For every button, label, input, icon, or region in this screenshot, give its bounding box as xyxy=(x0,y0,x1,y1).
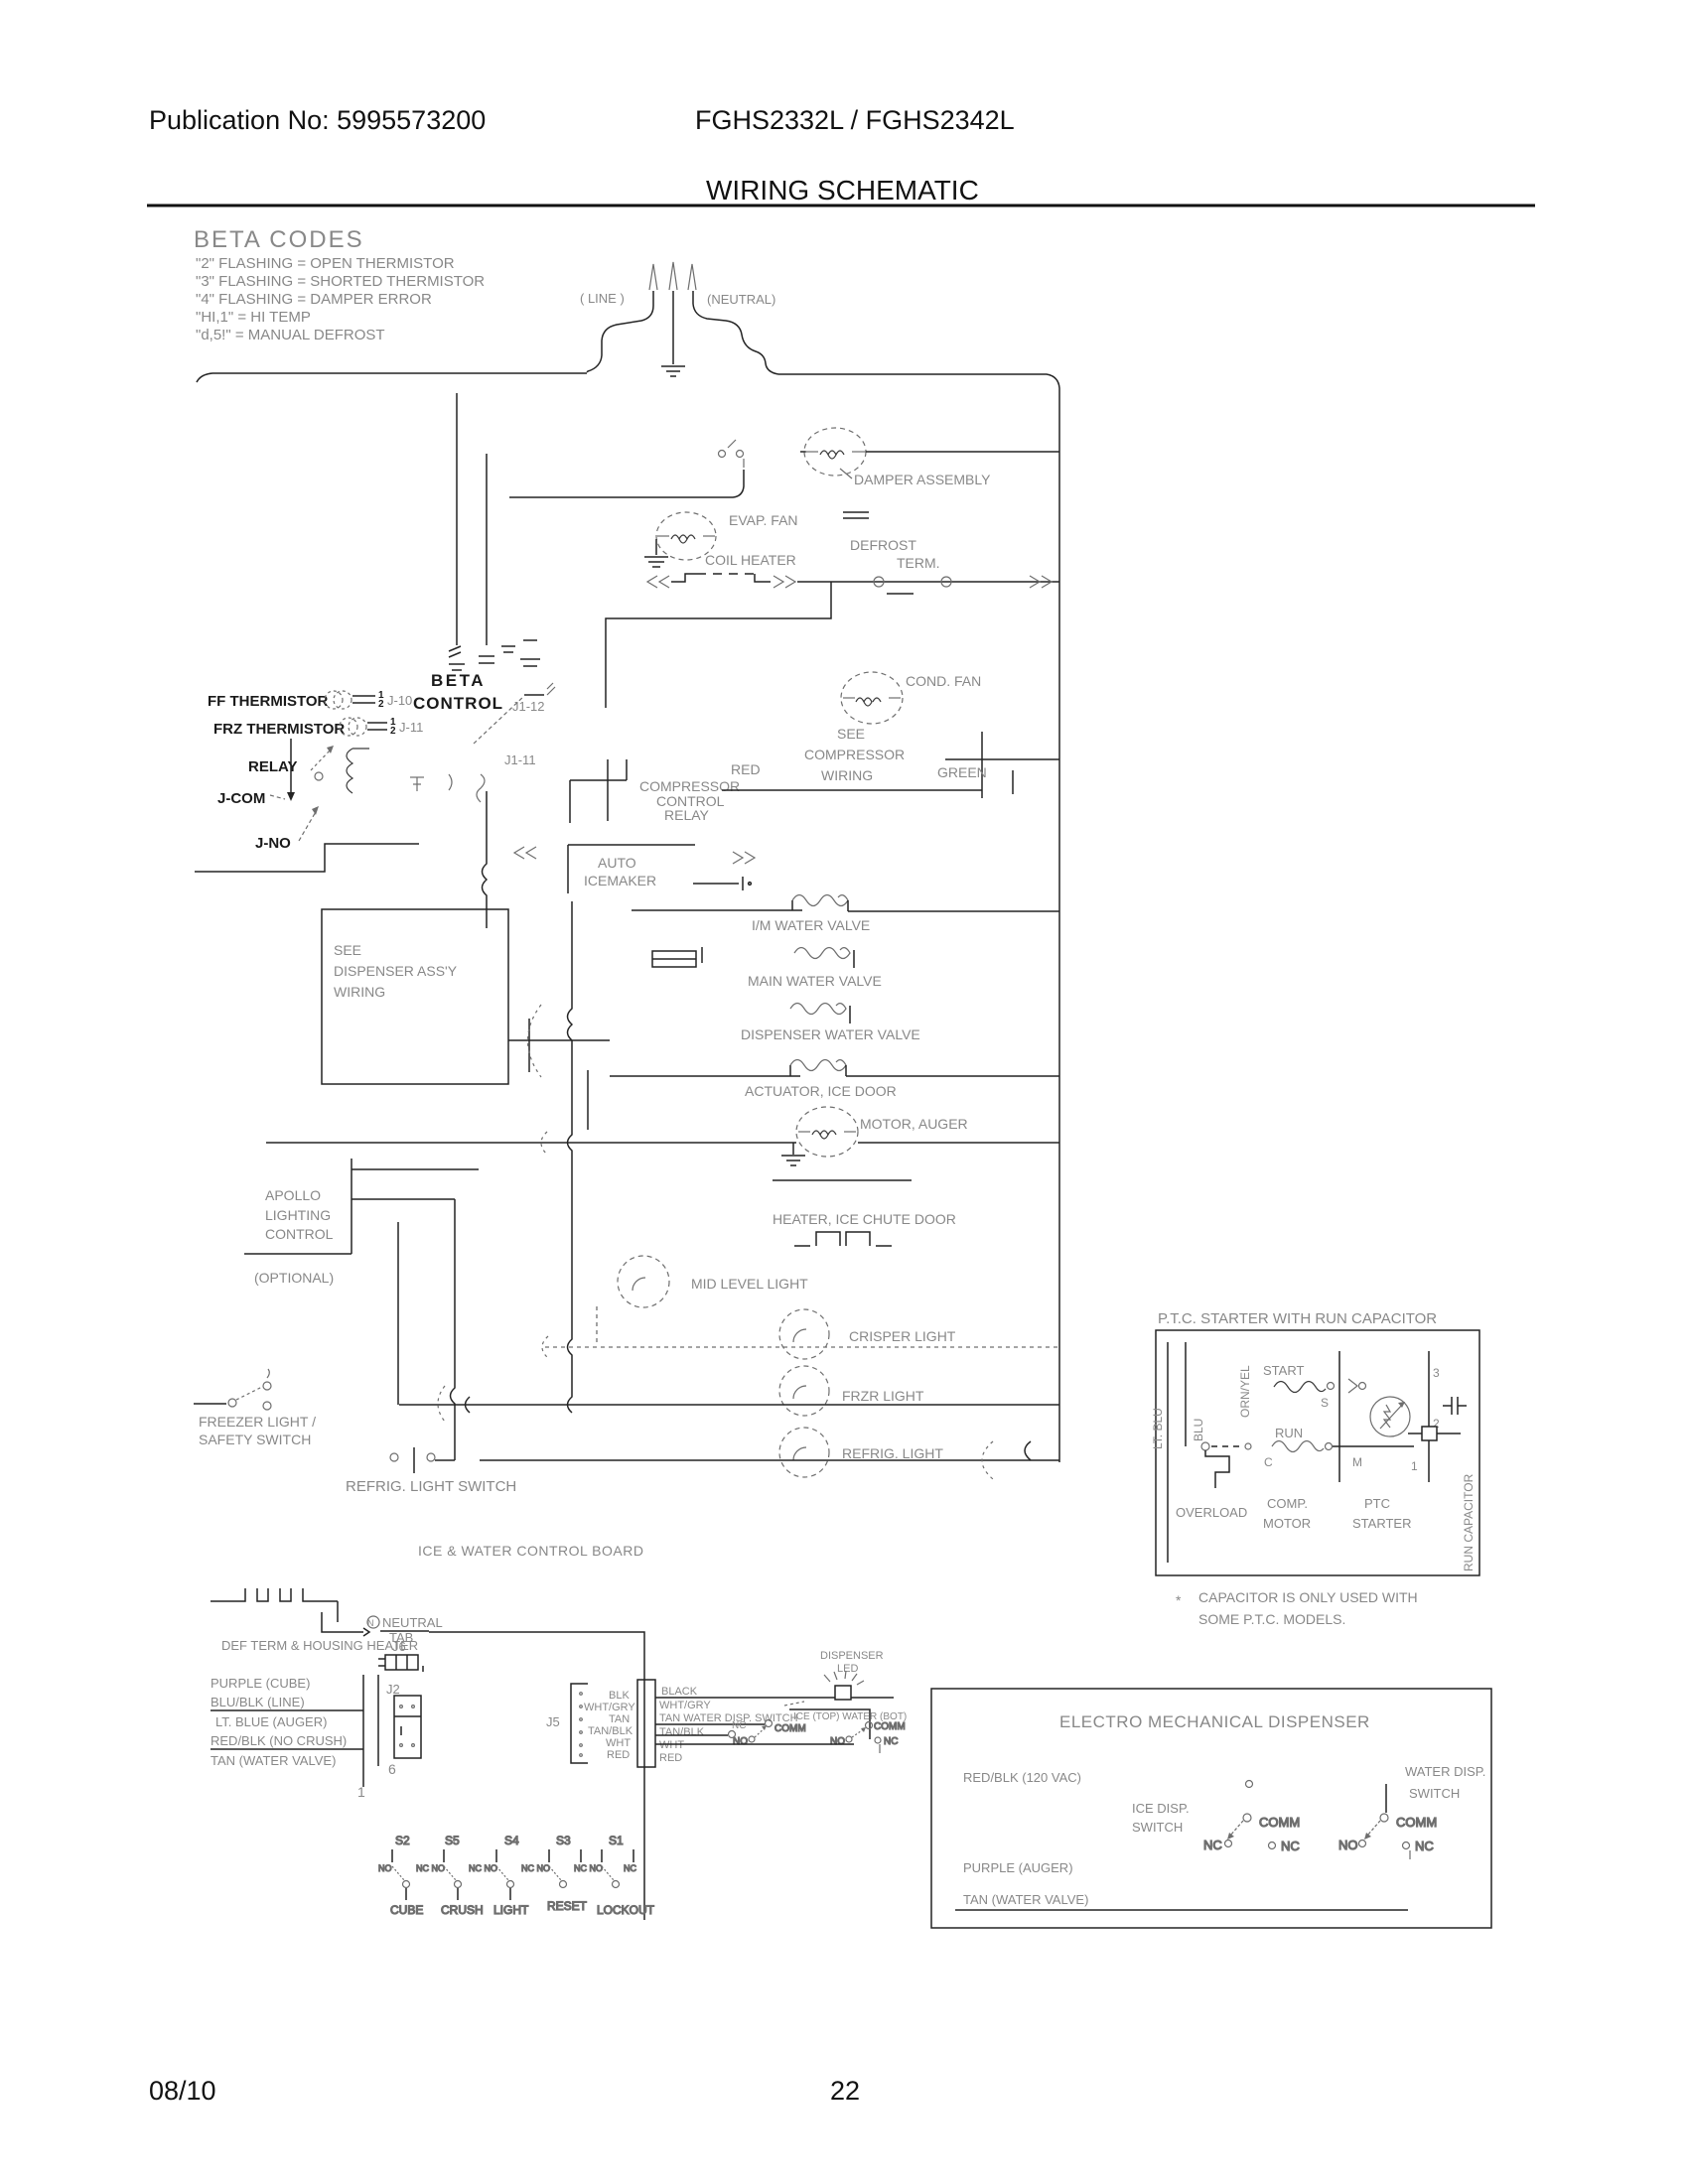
switch: refrig light xyxy=(390,1447,455,1473)
lamp: refrig light xyxy=(779,1428,829,1477)
solenoid: actuator ice door xyxy=(610,1060,1059,1077)
wire: wht run xyxy=(655,1743,854,1745)
svg-text:NC: NC xyxy=(884,1736,898,1747)
svg-text:S3: S3 xyxy=(556,1834,571,1847)
wire: apollo drop 2 xyxy=(451,1199,456,1460)
svg-text:BLU: BLU xyxy=(1192,1419,1205,1441)
connector chevrons right of heater xyxy=(774,576,795,588)
svg-text:WATER DISP.: WATER DISP. xyxy=(1405,1764,1485,1779)
J1 pins row xyxy=(449,640,540,670)
icemaker mold heater xyxy=(652,947,702,967)
svg-text:P.T.C. STARTER WITH RUN CA: P.T.C. STARTER WITH RUN CAPACITOR xyxy=(1158,1310,1437,1327)
svg-text:COMM: COMM xyxy=(1259,1815,1300,1830)
svg-text:COND. FAN: COND. FAN xyxy=(906,673,981,689)
contact dot xyxy=(1246,1781,1253,1788)
svg-text:LT. BLU: LT. BLU xyxy=(1151,1408,1165,1449)
wire labels right of P5 xyxy=(659,1686,798,1764)
svg-text:REFRIG. LIGHT: REFRIG. LIGHT xyxy=(842,1445,943,1461)
svg-text:CONTROL: CONTROL xyxy=(413,694,503,713)
wire: long left run xyxy=(197,373,587,382)
connector arc on crisper line xyxy=(542,1336,548,1358)
switch: water dispenser (on tan) xyxy=(655,1723,765,1725)
run capacitor tap xyxy=(1408,1427,1461,1440)
defrost relay arm in control xyxy=(474,683,555,744)
damper switch xyxy=(719,440,745,468)
svg-text:RED/BLK (NO CRUSH): RED/BLK (NO CRUSH) xyxy=(211,1733,347,1748)
svg-text:J1-12: J1-12 xyxy=(512,699,545,714)
svg-text:1: 1 xyxy=(1411,1459,1418,1473)
svg-text:(OPTIONAL): (OPTIONAL) xyxy=(254,1270,334,1286)
svg-text:PURPLE (AUGER): PURPLE (AUGER) xyxy=(963,1860,1073,1875)
motor: evap fan xyxy=(656,512,716,560)
svg-text:WIRING: WIRING xyxy=(821,767,873,783)
wire: neutral prong S-bend to right run xyxy=(693,291,778,374)
svg-text:SWITCH: SWITCH xyxy=(1132,1820,1183,1835)
svg-text:J5: J5 xyxy=(546,1714,560,1729)
svg-text:MOTOR, AUGER: MOTOR, AUGER xyxy=(860,1116,968,1132)
svg-text:CRISPER LIGHT: CRISPER LIGHT xyxy=(849,1328,956,1344)
svg-text:"3" FLASHING = SHORTED THERMIS: "3" FLASHING = SHORTED THERMISTOR xyxy=(196,273,485,290)
overload step xyxy=(1205,1450,1229,1488)
run winding line xyxy=(1201,1441,1414,1452)
svg-text:SAFETY SWITCH: SAFETY SWITCH xyxy=(199,1432,311,1447)
left micro switch xyxy=(733,1723,806,1747)
svg-text:CRUSH: CRUSH xyxy=(441,1903,484,1917)
svg-text:GREEN: GREEN xyxy=(937,764,987,780)
motor: auger xyxy=(796,1107,858,1157)
wire: icemaker bus (center) xyxy=(568,901,573,1413)
wire: relay pointer line xyxy=(290,739,292,797)
svg-text:FRZ THERMISTOR: FRZ THERMISTOR xyxy=(213,721,345,738)
svg-text:COMP.: COMP. xyxy=(1267,1496,1308,1511)
svg-text:RED/BLK (120 VAC): RED/BLK (120 VAC) xyxy=(963,1770,1081,1785)
wire: stub under auger xyxy=(773,1179,912,1181)
svg-text:TAN/BLK: TAN/BLK xyxy=(588,1725,633,1737)
svg-text:J2: J2 xyxy=(386,1682,400,1697)
svg-text:ICE DISP.: ICE DISP. xyxy=(1132,1801,1190,1816)
thermistor FF symbol xyxy=(325,691,375,709)
svg-text:TAN (WATER VALVE): TAN (WATER VALVE) xyxy=(963,1892,1088,1907)
svg-text:DEF TERM & HOUSING HEATER: DEF TERM & HOUSING HEATER xyxy=(221,1638,418,1653)
wire color labels (left of P5) xyxy=(584,1690,635,1761)
svg-text:6: 6 xyxy=(388,1761,396,1777)
start contact xyxy=(1348,1379,1366,1393)
svg-text:APOLLO: APOLLO xyxy=(265,1187,321,1203)
svg-text:COMM: COMM xyxy=(774,1723,806,1734)
svg-text:LT. BLUE (AUGER): LT. BLUE (AUGER) xyxy=(215,1714,327,1729)
heater: defrost coil (dashed run) xyxy=(671,574,697,582)
svg-text:NC NO: NC NO xyxy=(469,1863,497,1873)
wire: line prong S-bend to left run xyxy=(587,291,653,372)
lamp: mid level light xyxy=(618,1256,669,1307)
svg-text:SEE: SEE xyxy=(837,726,865,742)
wire: freezer light run xyxy=(399,1404,1059,1406)
wire: left run to auger motor xyxy=(266,1142,796,1144)
svg-text:(NEUTRAL): (NEUTRAL) xyxy=(707,292,775,307)
svg-text:PURPLE (CUBE): PURPLE (CUBE) xyxy=(211,1676,310,1691)
svg-text:NC: NC xyxy=(1203,1838,1222,1852)
svg-text:TAN: TAN xyxy=(609,1713,630,1725)
ground (mains) xyxy=(661,366,685,376)
svg-text:( LINE ): ( LINE ) xyxy=(580,291,625,306)
connector arc on auger line xyxy=(541,1132,547,1155)
right micro switch xyxy=(830,1721,906,1753)
ground at evap fan xyxy=(644,539,668,567)
wire: red run to compressor xyxy=(722,789,982,791)
svg-text:START: START xyxy=(1263,1363,1304,1378)
connector chevrons before rail xyxy=(1030,576,1052,588)
svg-text:*: * xyxy=(1176,1592,1182,1608)
svg-text:08/10: 08/10 xyxy=(149,2076,216,2106)
svg-text:NC: NC xyxy=(624,1863,636,1873)
relay coil xyxy=(347,749,369,793)
svg-text:AUTO: AUTO xyxy=(598,855,636,871)
svg-text:BLACK: BLACK xyxy=(661,1686,698,1698)
svg-text:RED: RED xyxy=(731,761,761,777)
svg-text:I/M WATER VALVE: I/M WATER VALVE xyxy=(752,917,870,933)
motor: condenser fan xyxy=(841,672,903,724)
svg-text:3: 3 xyxy=(1433,1366,1440,1380)
connector arcs xyxy=(528,1005,542,1077)
electro mechanical dispenser box xyxy=(931,1689,1491,1928)
wire: damper switch to motor xyxy=(800,451,806,453)
switch: ice dispenser xyxy=(1203,1814,1300,1853)
wire: tan bottom run xyxy=(955,1909,1408,1911)
J1 lower pins xyxy=(410,774,485,802)
svg-text:REFRIG. LIGHT SWITCH: REFRIG. LIGHT SWITCH xyxy=(346,1478,516,1495)
apollo lighting control outline xyxy=(244,1159,479,1254)
svg-text:NC: NC xyxy=(732,1720,746,1731)
svg-text:S5: S5 xyxy=(445,1834,460,1847)
svg-text:SEE: SEE xyxy=(334,942,361,958)
motor: damper assembly xyxy=(804,428,866,476)
wire: defrost line down to compressor branch xyxy=(606,582,831,708)
svg-text:Publication No: 5995573200: Publication No: 5995573200 xyxy=(149,105,486,135)
svg-text:SOME P.T.C. MODELS.: SOME P.T.C. MODELS. xyxy=(1198,1611,1345,1627)
connector bar xyxy=(528,1019,530,1072)
thermistor FRZ symbol xyxy=(340,718,387,736)
ptc device xyxy=(1370,1397,1410,1436)
connector chevrons left of heater xyxy=(647,576,669,588)
svg-text:FRZR LIGHT: FRZR LIGHT xyxy=(842,1388,924,1404)
svg-text:NO: NO xyxy=(733,1736,748,1747)
arrow j-no xyxy=(299,806,319,841)
svg-text:RED: RED xyxy=(607,1749,630,1761)
svg-text:M: M xyxy=(1352,1455,1362,1469)
svg-text:NO: NO xyxy=(1338,1838,1358,1852)
lamp: crisper light xyxy=(779,1309,829,1359)
wire: right rail xyxy=(1058,388,1060,1462)
svg-text:22: 22 xyxy=(830,2076,860,2106)
svg-text:RESET: RESET xyxy=(547,1899,588,1913)
start winding xyxy=(1274,1382,1335,1393)
connector bump on freezer line xyxy=(466,1397,471,1413)
capacitor mark near damper xyxy=(843,512,869,518)
svg-text:NEUTRAL: NEUTRAL xyxy=(382,1615,443,1630)
wire: icemaker sensor stub xyxy=(693,877,751,890)
svg-text:STARTER: STARTER xyxy=(1352,1516,1411,1531)
svg-text:SWITCH: SWITCH xyxy=(1409,1786,1460,1801)
wire: stub below xyxy=(587,1070,589,1130)
connector bump refrig line xyxy=(1025,1441,1031,1460)
svg-text:HEATER, ICE CHUTE DOOR: HEATER, ICE CHUTE DOOR xyxy=(773,1211,956,1227)
svg-text:WHT: WHT xyxy=(659,1739,684,1751)
wire to J2 xyxy=(211,1709,363,1711)
svg-text:EVAP. FAN: EVAP. FAN xyxy=(729,512,798,528)
capacitor plates xyxy=(1443,1397,1467,1415)
wire: refrig light run xyxy=(480,1459,1059,1461)
solenoid: I/M water valve xyxy=(632,895,1059,912)
wire: auger motor to rail xyxy=(858,1142,1059,1144)
svg-text:MOTOR: MOTOR xyxy=(1263,1516,1311,1531)
svg-text:CUBE: CUBE xyxy=(390,1903,423,1917)
svg-text:LIGHTING: LIGHTING xyxy=(265,1207,331,1223)
board edge comb xyxy=(211,1588,369,1636)
svg-text:NC NO: NC NO xyxy=(416,1863,445,1873)
svg-text:LIGHT: LIGHT xyxy=(493,1903,529,1917)
wire: lt blu rail xyxy=(1167,1342,1169,1563)
svg-text:RUN CAPACITOR: RUN CAPACITOR xyxy=(1462,1473,1476,1571)
svg-text:LOCKOUT: LOCKOUT xyxy=(597,1903,655,1917)
neutral tab xyxy=(367,1616,379,1628)
switch S3 reset xyxy=(521,1834,588,1913)
svg-text:CAPACITOR IS ONLY USED WITH: CAPACITOR IS ONLY USED WITH xyxy=(1198,1589,1418,1605)
svg-text:"d,5!" = MANUAL DEFROST: "d,5!" = MANUAL DEFROST xyxy=(196,327,385,343)
wire: beta to damper switch xyxy=(509,470,744,497)
svg-text:TAN (WATER VALVE): TAN (WATER VALVE) xyxy=(211,1753,336,1768)
svg-text:MAIN WATER VALVE: MAIN WATER VALVE xyxy=(748,973,882,989)
svg-text:MID LEVEL LIGHT: MID LEVEL LIGHT xyxy=(691,1276,808,1292)
svg-text:"4" FLASHING = DAMPER ERROR: "4" FLASHING = DAMPER ERROR xyxy=(196,291,432,308)
svg-text:ELECTRO MECHANICAL DISPENSER: ELECTRO MECHANICAL DISPENSER xyxy=(1059,1712,1370,1731)
svg-text:COMM: COMM xyxy=(1396,1815,1437,1830)
wire: start bus vertical xyxy=(1338,1351,1340,1482)
svg-text:"HI,1" = HI TEMP: "HI,1" = HI TEMP xyxy=(196,309,311,326)
svg-text:RUN: RUN xyxy=(1275,1426,1303,1440)
svg-text:ACTUATOR, ICE DOOR: ACTUATOR, ICE DOOR xyxy=(745,1083,897,1099)
wire: control drop to valves bus xyxy=(483,791,488,928)
connector arc on refrig line xyxy=(982,1441,993,1479)
svg-text:J-10: J-10 xyxy=(387,693,412,708)
svg-text:FGHS2332L / FGHS2342L: FGHS2332L / FGHS2342L xyxy=(695,105,1015,135)
svg-text:COIL HEATER: COIL HEATER xyxy=(705,552,796,568)
svg-text:COMM: COMM xyxy=(874,1721,906,1732)
chevrons below control xyxy=(514,847,536,859)
svg-text:WHT/GRY: WHT/GRY xyxy=(659,1700,711,1711)
svg-text:BETA: BETA xyxy=(431,671,486,690)
svg-text:J1-11: J1-11 xyxy=(504,752,536,767)
wire: dashed crisper run xyxy=(545,1346,1059,1348)
wire: heater to defrost thermostat xyxy=(797,581,1059,583)
svg-text:COMPRESSOR: COMPRESSOR xyxy=(639,778,740,794)
svg-text:J-NO: J-NO xyxy=(255,835,291,852)
wire: green stub xyxy=(981,732,983,798)
svg-text:BETA CODES: BETA CODES xyxy=(194,226,364,253)
svg-text:NO: NO xyxy=(830,1736,845,1747)
svg-text:RELAY: RELAY xyxy=(248,758,297,775)
relay armature xyxy=(311,746,334,780)
wire: blu drop xyxy=(1185,1342,1187,1446)
ground at auger motor xyxy=(781,1143,805,1165)
svg-text:FREEZER LIGHT /: FREEZER LIGHT / xyxy=(199,1414,316,1430)
header rule xyxy=(147,205,1535,207)
see dispenser box xyxy=(322,909,508,1084)
wire: tan/blk stub xyxy=(655,1734,728,1736)
wire: top right run to right rail xyxy=(778,374,1059,388)
wire: j-no step run xyxy=(195,844,419,872)
defrost thermostat terminals xyxy=(874,577,951,594)
svg-text:PTC: PTC xyxy=(1364,1496,1390,1511)
svg-text:ORN/YEL: ORN/YEL xyxy=(1238,1365,1252,1418)
svg-text:"2" FLASHING = OPEN THERMISTOR: "2" FLASHING = OPEN THERMISTOR xyxy=(196,255,455,272)
svg-text:DISPENSER ASS'Y: DISPENSER ASS'Y xyxy=(334,963,458,979)
wire: dashed stub to mid light xyxy=(596,1306,598,1346)
svg-text:RELAY: RELAY xyxy=(664,807,710,823)
svg-text:RED: RED xyxy=(659,1752,682,1764)
svg-text:OVERLOAD: OVERLOAD xyxy=(1176,1505,1247,1520)
svg-text:S1: S1 xyxy=(609,1834,624,1847)
svg-text:WHT: WHT xyxy=(606,1737,631,1749)
svg-text:J-COM: J-COM xyxy=(217,790,265,807)
svg-text:ICEMAKER: ICEMAKER xyxy=(584,873,656,888)
switch: freezer light / safety xyxy=(194,1369,271,1410)
svg-text:NC NO: NC NO xyxy=(574,1863,603,1873)
svg-text:CONTROL: CONTROL xyxy=(265,1226,334,1242)
connector P5 block xyxy=(637,1680,655,1767)
svg-text:J-11: J-11 xyxy=(399,720,423,735)
solenoid: dispenser water valve xyxy=(790,1004,846,1015)
connector J2 frame xyxy=(363,1675,378,1787)
svg-text:BLU/BLK (LINE): BLU/BLK (LINE) xyxy=(211,1695,305,1709)
switch S4 light xyxy=(469,1834,529,1917)
svg-text:FF THERMISTOR: FF THERMISTOR xyxy=(208,693,329,710)
solenoid: main water valve xyxy=(794,948,850,959)
wire: box to bus xyxy=(508,1039,610,1041)
svg-text:2: 2 xyxy=(378,699,384,710)
svg-text:S: S xyxy=(1321,1396,1329,1410)
switch S5 crush xyxy=(416,1834,484,1917)
svg-text:NO: NO xyxy=(378,1863,392,1873)
svg-text:DISPENSER WATER VALVE: DISPENSER WATER VALVE xyxy=(741,1026,920,1042)
wire: center prong to ground xyxy=(672,291,674,364)
svg-text:DEFROST: DEFROST xyxy=(850,537,916,553)
connector chevrons icemaker xyxy=(733,852,755,864)
svg-text:S4: S4 xyxy=(504,1834,519,1847)
svg-text:N: N xyxy=(367,1618,374,1628)
wire: neutral run to connector drop xyxy=(429,1632,644,1920)
wire: drop to J1 pin 1 xyxy=(456,393,458,645)
wire to J2 xyxy=(211,1748,363,1750)
svg-text:1: 1 xyxy=(357,1784,365,1800)
switch: water dispenser xyxy=(1338,1814,1437,1859)
wire: damper motor to right rail xyxy=(866,451,1059,453)
wire: water switch feed xyxy=(1385,1784,1387,1813)
svg-text:NC: NC xyxy=(1415,1839,1434,1853)
svg-text:J6: J6 xyxy=(392,1639,406,1654)
svg-text:S2: S2 xyxy=(395,1834,410,1847)
connector arcs on freezer line xyxy=(438,1386,445,1422)
svg-text:C: C xyxy=(1264,1455,1273,1469)
svg-text:ICE & WATER CONTROL BOARD: ICE & WATER CONTROL BOARD xyxy=(418,1543,643,1559)
svg-text:LED: LED xyxy=(837,1663,858,1675)
svg-text:COMPRESSOR: COMPRESSOR xyxy=(804,747,905,762)
lamp: freezer light xyxy=(779,1366,829,1416)
switch S2 cube xyxy=(378,1834,423,1917)
wire: black run with dispenser led xyxy=(655,1697,894,1699)
switch S1 lockout xyxy=(574,1834,655,1917)
beta codes legend xyxy=(194,226,485,343)
svg-text:TAN/BLK: TAN/BLK xyxy=(659,1726,705,1738)
relay contact: compressor control xyxy=(570,759,627,823)
wire: drop to J1 pin 2 xyxy=(486,454,488,645)
rocker plate xyxy=(789,1709,870,1739)
icemaker box xyxy=(568,845,695,893)
svg-text:NC NO: NC NO xyxy=(521,1863,550,1873)
membrane switch row xyxy=(378,1834,655,1917)
power plug prongs xyxy=(649,262,696,290)
svg-text:2: 2 xyxy=(390,726,396,737)
wire: right bus vertical xyxy=(1428,1351,1430,1482)
svg-text:DAMPER ASSEMBLY: DAMPER ASSEMBLY xyxy=(854,472,991,487)
svg-text:DISPENSER: DISPENSER xyxy=(820,1650,884,1662)
svg-text:TERM.: TERM. xyxy=(897,555,940,571)
svg-text:NC: NC xyxy=(1281,1839,1300,1853)
svg-text:WIRING SCHEMATIC: WIRING SCHEMATIC xyxy=(706,175,979,205)
svg-text:BLK: BLK xyxy=(609,1690,630,1702)
svg-text:WHT/GRY: WHT/GRY xyxy=(584,1702,635,1713)
heater: ice chute (square wave) xyxy=(794,1232,892,1246)
svg-text:WIRING: WIRING xyxy=(334,984,385,1000)
wire: apollo drop 1 xyxy=(397,1222,399,1405)
